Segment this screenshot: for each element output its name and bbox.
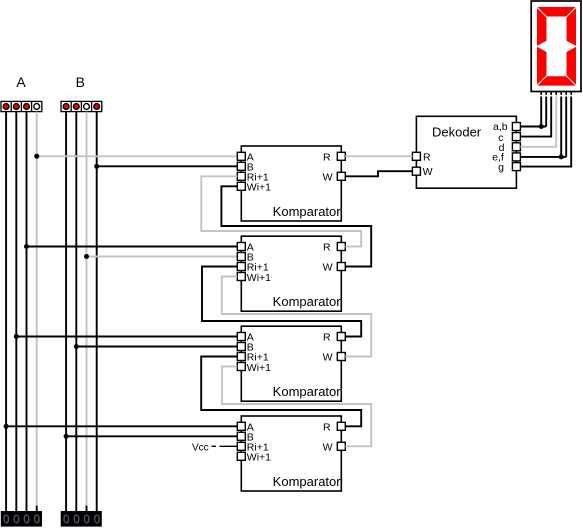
svg-text:Komparator: Komparator <box>273 294 342 309</box>
svg-text:Wi+1: Wi+1 <box>247 272 271 284</box>
svg-text:Vcc: Vcc <box>192 442 209 453</box>
wire B3 to comparator2 B <box>87 256 238 258</box>
wire rail B2 <box>75 112 77 511</box>
svg-text:0: 0 <box>23 513 29 526</box>
wire rail A1 <box>5 112 7 511</box>
wire rail A2 <box>15 112 17 511</box>
svg-text:R: R <box>323 332 331 344</box>
svg-text:R: R <box>423 151 431 163</box>
wire rail A3 <box>26 112 28 511</box>
svg-text:W: W <box>323 262 333 274</box>
svg-text:0: 0 <box>33 513 39 526</box>
wire Vcc to comparator4 Ri+1 <box>212 445 217 447</box>
wire rail B3 (value 0) <box>86 112 88 506</box>
svg-text:0: 0 <box>3 513 9 526</box>
wire comparator2 R to comparator1 Ri+1 <box>201 176 361 246</box>
svg-text:0: 0 <box>13 513 19 526</box>
wire decoder g to display segment g <box>520 97 571 167</box>
svg-text:0: 0 <box>63 513 69 526</box>
svg-text:0: 0 <box>73 513 79 526</box>
wire decoder a,b to display segments a and b <box>520 126 546 128</box>
svg-text:Wi+1: Wi+1 <box>247 362 271 374</box>
junction A4 <box>34 154 39 159</box>
svg-text:Komparator: Komparator <box>273 204 342 219</box>
svg-text:W: W <box>423 166 433 178</box>
wire rail A4 (value 0) <box>36 112 38 506</box>
svg-text:0: 0 <box>83 513 89 526</box>
wire decoder c to display segment c <box>520 97 551 137</box>
svg-text:B: B <box>76 74 85 90</box>
svg-text:R: R <box>323 242 331 254</box>
wire comparator1 W to decoder W <box>345 171 412 176</box>
svg-text:Komparator: Komparator <box>273 384 342 399</box>
seven-segment display DS1 showing 0 <box>531 1 581 92</box>
svg-text:Wi+1: Wi+1 <box>247 182 271 194</box>
junction B3 <box>84 254 89 259</box>
input pin group A <box>1 101 42 111</box>
svg-text:W: W <box>323 352 333 364</box>
svg-text:W: W <box>323 441 333 453</box>
svg-text:0: 0 <box>93 513 99 526</box>
junction A3 <box>24 244 29 249</box>
wire A2 to comparator3 A <box>16 336 237 338</box>
svg-text:Dekoder: Dekoder <box>432 124 482 139</box>
decoder U5 (Dekoder) <box>412 116 520 188</box>
wire decoder e,f to display segments e and f <box>520 156 566 158</box>
wire A3 to comparator2 A <box>27 246 238 248</box>
svg-text:Wi+1: Wi+1 <box>247 452 271 464</box>
svg-text:A: A <box>16 74 26 90</box>
svg-text:Komparator: Komparator <box>273 474 342 489</box>
junction B2 <box>74 344 79 349</box>
svg-text:R: R <box>323 151 331 163</box>
output display B (hex 0 0 0 0) <box>61 511 102 527</box>
junction A1 <box>4 424 9 429</box>
comparator U4 (Komparator) <box>237 416 345 491</box>
wire B1 to comparator4 B <box>66 435 237 437</box>
wire comparator3 W to comparator2 Wi+1 <box>222 277 371 357</box>
junction e,f <box>559 154 564 159</box>
wire B2 to comparator3 B <box>76 346 237 348</box>
wire B4 to comparator1 B <box>97 165 238 167</box>
wire comparator4 R to comparator3 Ri+1 <box>201 357 361 427</box>
svg-text:g: g <box>498 162 504 174</box>
junction a,b <box>539 124 544 129</box>
wire comparator3 R to comparator2 Ri+1 <box>202 267 361 337</box>
svg-text:W: W <box>323 171 333 183</box>
output display A (hex 0 0 0 0) <box>1 511 42 527</box>
wire A1 to comparator4 A <box>6 425 237 427</box>
comparator U1 (Komparator) <box>237 146 345 221</box>
wire decoder d to display segment d (value 0) <box>520 97 556 147</box>
wire comparator2 W to comparator1 Wi+1 <box>221 186 371 266</box>
comparator U2 (Komparator) <box>237 236 345 311</box>
junction B4 <box>94 164 99 169</box>
wire comparator4 W to comparator3 Wi+1 <box>222 367 371 447</box>
wire comparator1 R to decoder R (value 0) <box>345 155 412 157</box>
junction B1 <box>64 434 69 439</box>
display pin stubs <box>541 92 571 95</box>
wire rail B1 <box>65 112 67 511</box>
svg-text:R: R <box>323 421 331 433</box>
wire A4 to comparator1 A <box>37 155 238 157</box>
wire rail B4 <box>96 112 98 511</box>
comparator U3 (Komparator) <box>237 326 345 401</box>
input pin group B <box>61 101 102 111</box>
junction A2 <box>14 334 19 339</box>
